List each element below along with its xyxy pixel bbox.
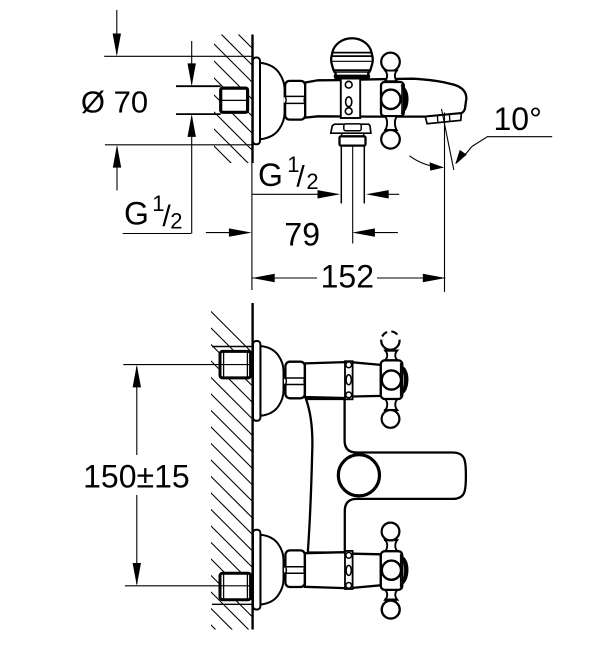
arc left part [410, 156, 444, 168]
upper handle inner ball [382, 410, 400, 428]
wall pipe hole lines [212, 346, 252, 348]
lower handle outer ball [382, 601, 400, 619]
svg-text:G: G [258, 157, 283, 193]
top stem [385, 71, 397, 82]
S-union square (bottom view, lower) [220, 573, 251, 600]
upper handle stems [385, 350, 397, 360]
wall surface line (top view) [251, 35, 253, 164]
svg-text:79: 79 [284, 217, 320, 253]
svg-text:2: 2 [306, 169, 318, 194]
hub shaded face [402, 86, 408, 113]
escutcheon flange (bottom view, upper) [253, 341, 284, 421]
shower connection pipe (G 1/2) [340, 146, 342, 204]
svg-text:10°: 10° [494, 101, 542, 137]
shower hose connection below body [331, 124, 371, 133]
upper cartridge band [345, 361, 353, 399]
upper handle hub [381, 360, 403, 399]
svg-text:152: 152 [321, 258, 374, 294]
valve cartridge band (top view) [341, 79, 360, 119]
dimension line with arrows [136, 367, 138, 455]
diverter knob (bottom view, thick circle) [338, 455, 379, 496]
union nut (top view) [285, 81, 305, 120]
svg-text:2: 2 [170, 208, 182, 233]
extension line through aerator down to 152 dim [444, 112, 446, 292]
handle hub [381, 82, 404, 116]
pipe centre line [352, 146, 354, 244]
svg-text:150±15: 150±15 [83, 458, 190, 494]
svg-text:G: G [124, 196, 149, 232]
union nut (bottom view, upper) [285, 362, 305, 399]
shower connection nut [340, 136, 366, 145]
escutcheon flange (top view) [253, 58, 285, 145]
dimension 152 [252, 277, 446, 279]
S-union square body in wall [221, 88, 248, 112]
hub boss circle [381, 90, 400, 109]
svg-text:/: / [296, 161, 305, 194]
lower handle inner ball [382, 523, 400, 541]
tilted 10 degree line [442, 109, 454, 170]
upper valve body (bottom view) [305, 362, 381, 398]
wall surface line (bottom view) [251, 303, 253, 630]
dome handle (bell knob) [331, 38, 373, 78]
bottom ball [381, 130, 400, 149]
wall hatch (bottom view) [150, 251, 360, 646]
extension lines [123, 364, 252, 366]
wall hatch (top view) [190, 0, 330, 262]
faucet body with spout (top view) [305, 79, 466, 118]
aerator on spout underside [425, 113, 461, 123]
cartridge screws [345, 81, 352, 88]
dimension G 1/2 (wall thread) [123, 41, 192, 234]
10 degree annotation [410, 109, 553, 292]
supply pipe stub in wall (G 1/2 thread) [176, 85, 221, 87]
lower handle stems [385, 590, 397, 600]
S-union square (bottom view, upper) [220, 351, 251, 378]
lower cartridge band [345, 551, 353, 589]
svg-text:Ø 70: Ø 70 [81, 85, 148, 120]
bottom stem [385, 116, 397, 130]
dimension G 1/2 (shower outlet) [253, 193, 400, 195]
lower valve body (bottom view) [305, 552, 381, 588]
escutcheon flange (bottom view, lower) [253, 530, 284, 610]
leader line [472, 137, 552, 147]
arc right part [456, 147, 472, 164]
wall extension line continuing down to 152 dimension [251, 163, 253, 290]
dimension 79 [206, 232, 398, 234]
dimension Ø70 [104, 10, 252, 191]
upper handle outer ball (dashed top arc) [381, 340, 399, 350]
faucet body S-shape with spout (bottom view) [306, 399, 466, 553]
top ball [381, 53, 400, 72]
union nut (bottom view, lower) [285, 550, 305, 587]
lower handle hub [381, 551, 403, 590]
